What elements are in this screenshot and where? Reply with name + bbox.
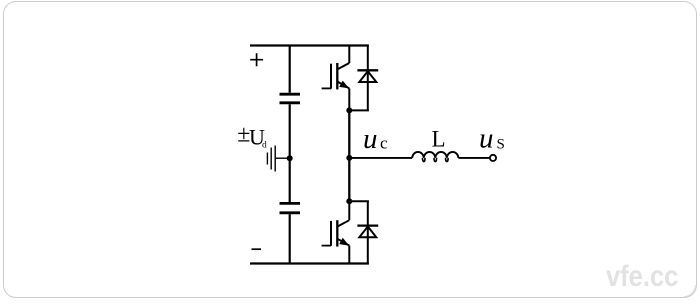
svg-text:d: d <box>262 141 267 151</box>
node A (top junction) <box>346 107 352 113</box>
svg-text:S: S <box>497 137 505 153</box>
label + (positive terminal) <box>250 53 263 66</box>
capacitor C1 <box>280 94 301 103</box>
IGBT V2 (bottom switch) <box>322 201 350 263</box>
IGBT V1 (top switch) <box>322 46 350 111</box>
watermark vfe.cc <box>606 260 678 294</box>
label ±Ud <box>237 121 267 150</box>
node ground junction <box>287 155 293 161</box>
wire link bottom junction <box>349 200 369 202</box>
wire output right <box>458 157 490 159</box>
svg-text:u: u <box>363 123 378 155</box>
svg-text:L: L <box>432 127 446 152</box>
node midpoint uc <box>346 155 352 161</box>
ground symbol <box>267 146 288 172</box>
diode VD2 (bottom freewheel) <box>357 201 378 263</box>
wire output left <box>349 157 412 159</box>
wire top rail <box>250 44 369 46</box>
wire left branch lower <box>289 214 291 263</box>
wire left branch middle <box>289 104 291 202</box>
corner curl <box>684 285 696 297</box>
wire link top junction <box>349 109 369 111</box>
svg-text:c: c <box>380 134 388 153</box>
svg-text:u: u <box>479 123 494 155</box>
diode VD1 (top freewheel) <box>357 46 378 111</box>
wire phase leg <box>348 110 350 201</box>
label − (negative terminal) <box>252 248 262 250</box>
wire left branch upper <box>289 46 291 93</box>
node B (bottom junction) <box>346 198 352 204</box>
terminal us (open circle) <box>490 155 496 161</box>
inductor L <box>412 152 458 158</box>
label uc <box>363 123 388 155</box>
wire bottom rail <box>250 262 369 264</box>
label us <box>479 123 505 155</box>
capacitor C2 <box>280 203 301 212</box>
